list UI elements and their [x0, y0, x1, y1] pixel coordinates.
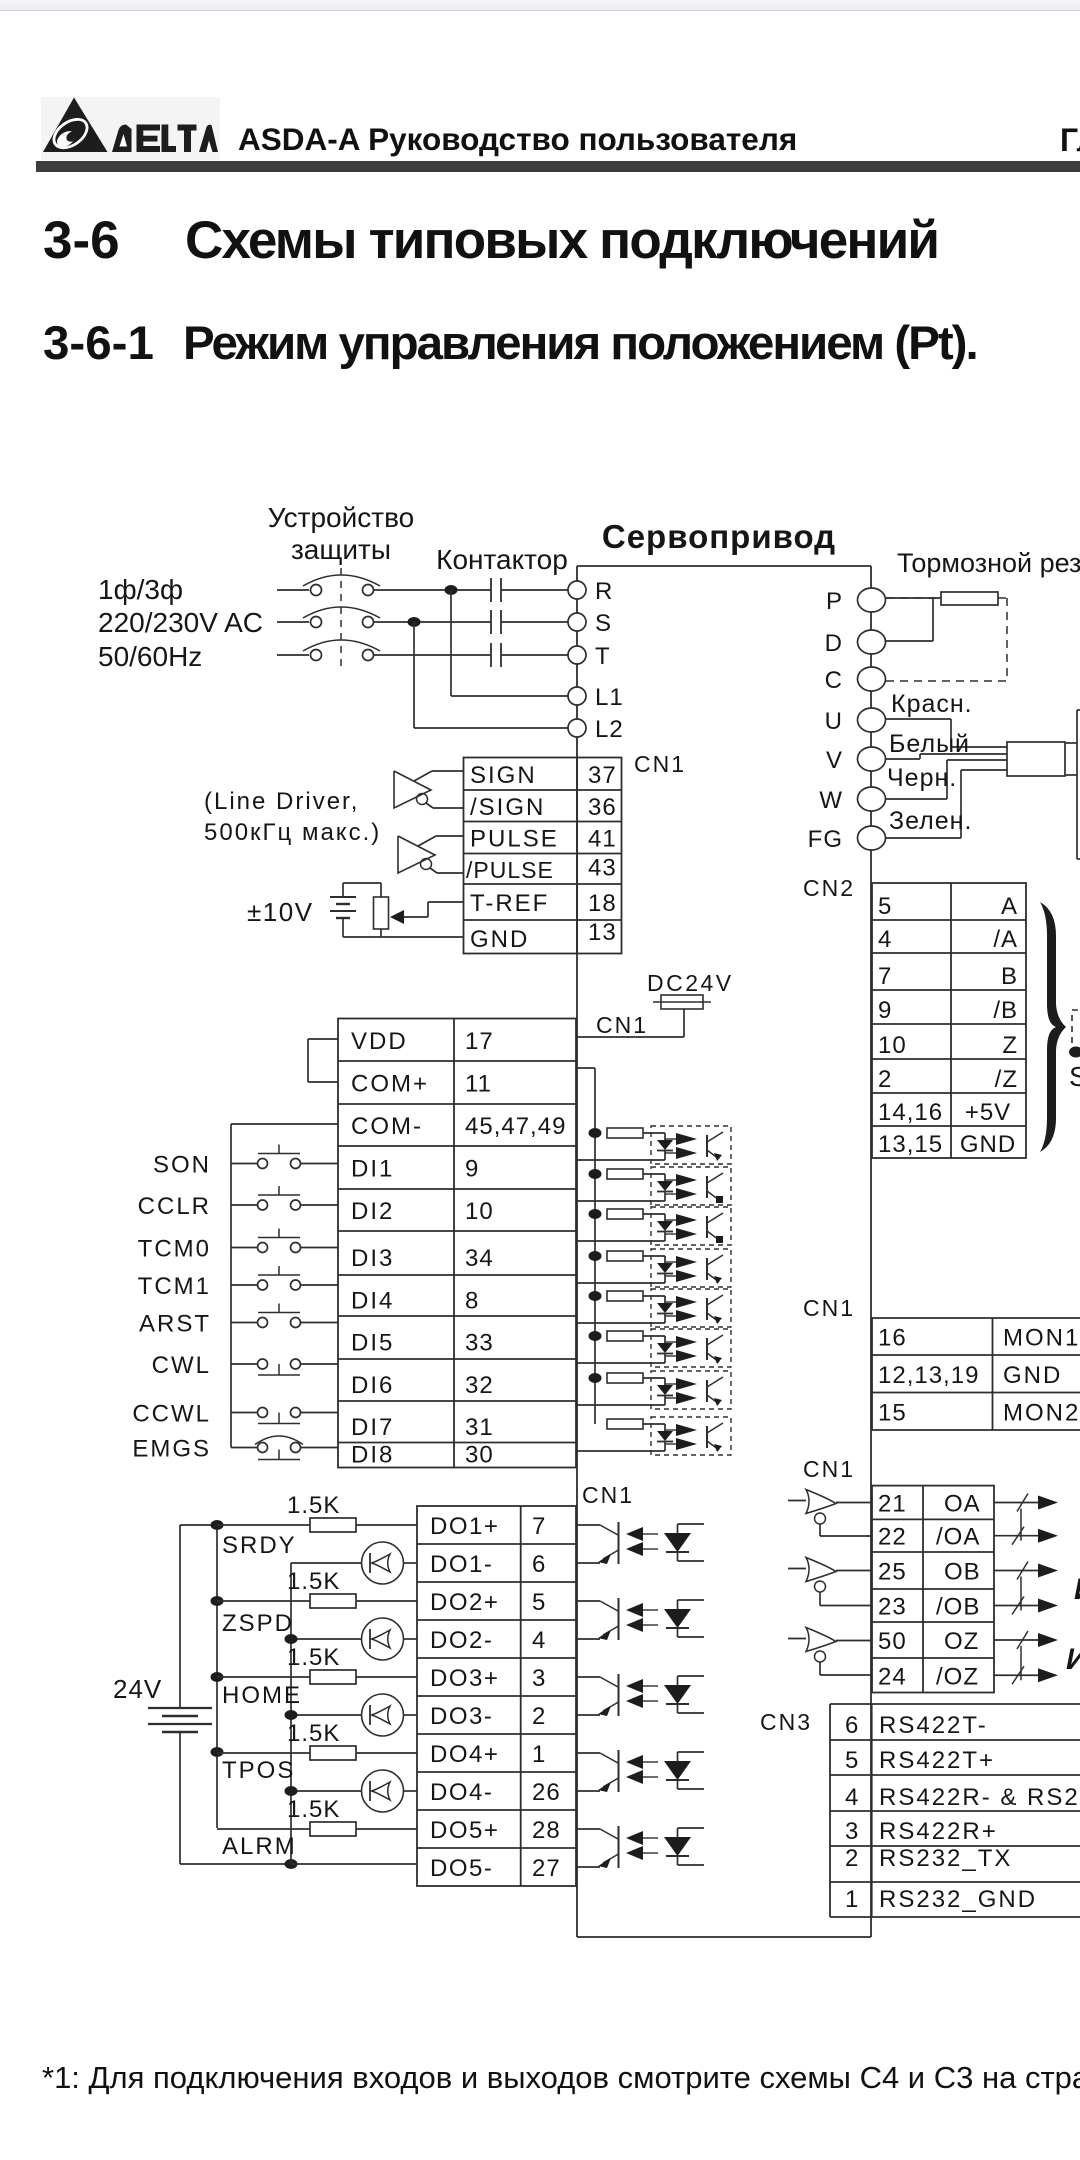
terminal W	[858, 787, 886, 811]
svg-text:37: 37	[588, 762, 617, 789]
zener diode DO3	[664, 1685, 691, 1704]
output opto DO3 emitter	[603, 1702, 619, 1711]
battery B1 (±10V reference)	[330, 896, 356, 898]
svg-text:34: 34	[465, 1245, 494, 1272]
svg-text:1.5K: 1.5K	[287, 1644, 340, 1671]
junction node DI4 bus	[589, 1251, 602, 1261]
svg-text:16: 16	[878, 1325, 907, 1352]
svg-text:5: 5	[532, 1589, 546, 1616]
wire: P to brake resistor	[886, 597, 941, 599]
wire: DI5 row to LED cathode	[577, 1322, 665, 1324]
svg-text:ZSPD: ZSPD	[222, 1610, 294, 1637]
wire: breaker pole T to contactor	[374, 654, 492, 656]
switch CWL actuator bar	[258, 1374, 300, 1376]
optocoupler dashed box DI7	[651, 1371, 731, 1409]
wire: contactor pole T to terminal T	[501, 654, 568, 656]
CN3 row line above 4	[830, 1774, 1080, 1776]
svg-text:15: 15	[878, 1399, 907, 1426]
resistor R-DI8	[607, 1419, 643, 1429]
logo wordmark DELTA	[112, 125, 132, 153]
resistor R-DI5	[607, 1291, 643, 1301]
optocoupler LED DI3	[657, 1221, 673, 1231]
svg-text:DI6: DI6	[351, 1372, 394, 1399]
resistor 1.5K R4	[310, 1746, 356, 1760]
circuit breaker pole S arc	[303, 607, 380, 618]
wire: bus to resistor 3	[217, 1676, 310, 1678]
switch CCLR wires	[231, 1204, 258, 1206]
wire: wiper to T-REF pin 18	[404, 916, 428, 918]
svg-text:31: 31	[465, 1414, 494, 1441]
header title	[238, 121, 797, 158]
svg-text:4: 4	[845, 1784, 859, 1811]
svg-text:6: 6	[845, 1712, 859, 1739]
svg-text:CCLR: CCLR	[138, 1193, 211, 1220]
svg-text:DO1-: DO1-	[430, 1551, 493, 1578]
contactor MC pole R contacts	[490, 578, 492, 602]
zener diode DO4	[664, 1761, 691, 1780]
svg-text:DI2: DI2	[351, 1198, 394, 1225]
phototransistor DI5	[706, 1298, 708, 1320]
opto light arrows DI3	[665, 1219, 676, 1221]
svg-text:3: 3	[845, 1818, 859, 1845]
svg-text:36: 36	[588, 794, 617, 821]
svg-text:1: 1	[845, 1886, 859, 1913]
output opto DO2 base bar	[618, 1598, 620, 1640]
svg-text:+5V: +5V	[965, 1099, 1011, 1126]
svg-text:2: 2	[878, 1066, 892, 1093]
CN3 row line above 1	[830, 1881, 1080, 1883]
wire: resistor to LED DI3	[643, 1213, 665, 1215]
svg-text:1.5K: 1.5K	[287, 1492, 340, 1519]
brake resistor RB	[941, 592, 998, 605]
svg-text:/Z: /Z	[995, 1066, 1018, 1093]
line driver U5 (OZ)	[788, 1638, 806, 1640]
wire: bus to resistor 1	[217, 1524, 310, 1526]
svg-text:26: 26	[532, 1779, 561, 1806]
wire: DO3- to diode	[404, 1714, 418, 1716]
junction node DI1 bus	[589, 1128, 602, 1138]
footnote	[42, 2060, 1080, 2096]
section heading 3-6	[43, 210, 120, 271]
wire: DI8 row to LED cathode	[577, 1450, 665, 1452]
wire: DI1 row to LED cathode	[577, 1159, 665, 1161]
opto light arrows DI4	[665, 1261, 676, 1263]
opto light arrows DI2	[665, 1179, 676, 1181]
encoder output row line above 22	[872, 1518, 994, 1520]
CN3 row line above 2	[830, 1845, 1080, 1847]
svg-text:DO2-: DO2-	[430, 1627, 493, 1654]
wire: motor W phase (black)	[886, 798, 947, 800]
wire: /OA output	[994, 1535, 1040, 1537]
svg-text:DI4: DI4	[351, 1288, 394, 1315]
output opto DO2 emitter	[603, 1626, 619, 1635]
svg-text:OB: OB	[944, 1559, 981, 1586]
zener diode DO2 leads	[677, 1600, 679, 1609]
contactor MC pole T contacts	[490, 643, 492, 667]
svg-text:Изм: Изм	[1066, 1643, 1080, 1676]
svg-text:A: A	[1001, 893, 1018, 920]
svg-text:L2: L2	[595, 716, 624, 743]
phototransistor DI3	[706, 1216, 708, 1238]
switch TCM1 actuator bar	[258, 1274, 300, 1276]
CN2 row line above 2	[872, 1058, 1026, 1060]
zener diode DO5 leads	[677, 1828, 679, 1837]
wire: DI6 row to LED cathode	[577, 1362, 665, 1364]
resistor R-DI7	[607, 1373, 643, 1383]
opto light arrows DI1	[665, 1138, 676, 1140]
DO table frame	[417, 1506, 576, 1886]
svg-text:2: 2	[532, 1703, 546, 1730]
wire: battery minus to DO5- return	[179, 1732, 181, 1864]
svg-text:50: 50	[878, 1628, 907, 1655]
svg-text:Z: Z	[1002, 1032, 1018, 1059]
CN1 pulse table row line above /PULSE	[464, 853, 622, 855]
wire: S phase junction down to L2	[413, 622, 415, 728]
svg-text:OA: OA	[944, 1491, 981, 1518]
arrow OZ	[1038, 1633, 1058, 1647]
phototransistor DI8	[706, 1426, 708, 1448]
svg-text:220/230V AC: 220/230V AC	[98, 607, 263, 638]
phototransistor DI7	[706, 1380, 708, 1402]
encoder output row line above 24	[872, 1657, 994, 1659]
switch CCWL contacts	[258, 1408, 268, 1418]
svg-text:25: 25	[878, 1559, 907, 1586]
CN1 pulse table row line above PULSE	[464, 821, 622, 823]
junction node on S phase	[408, 617, 421, 627]
optocoupler LED DI1	[657, 1140, 673, 1150]
optocoupler dashed box DI4	[651, 1249, 731, 1287]
svg-text:(Line Driver,: (Line Driver,	[204, 788, 359, 815]
wire: DC24V to VDD row	[683, 1009, 685, 1037]
optocoupler LED DI6	[657, 1343, 673, 1353]
svg-text:CN1: CN1	[803, 1295, 855, 1321]
breaker mechanical link (dashed)	[340, 568, 342, 668]
svg-text:SON: SON	[153, 1152, 211, 1179]
svg-text:DO4-: DO4-	[430, 1779, 493, 1806]
svg-text:/OB: /OB	[936, 1594, 980, 1621]
svg-text:DO5+: DO5+	[430, 1817, 499, 1844]
svg-text:DI1: DI1	[351, 1156, 394, 1183]
optocoupler dashed box DI3	[651, 1207, 731, 1245]
svg-text:CN2: CN2	[803, 875, 855, 901]
svg-text:10: 10	[465, 1198, 494, 1225]
CN2 row line above 13,15	[872, 1125, 1026, 1127]
svg-text:T-REF: T-REF	[470, 890, 549, 917]
junction node SRDY	[211, 1520, 224, 1530]
DO table row line above DO4+	[417, 1733, 576, 1735]
switch EMGS wires	[231, 1447, 258, 1449]
svg-text:18: 18	[588, 890, 617, 917]
optocoupler LED DI5	[657, 1303, 673, 1313]
output opto DO4 collector wire	[577, 1752, 600, 1754]
switch CCLR contacts	[258, 1200, 268, 1210]
resistor R-DI6	[607, 1331, 643, 1341]
svg-text:1.5K: 1.5K	[287, 1796, 340, 1823]
optocoupler dashed box DI5	[651, 1289, 731, 1327]
wire: motor FG ground (green)	[886, 837, 961, 839]
wire: DO2- to diode	[404, 1638, 418, 1640]
indicator diode D4 symbol	[369, 1781, 371, 1801]
output opto DO4 emitter	[603, 1778, 619, 1787]
terminal FG	[858, 826, 886, 850]
svg-text:U: U	[825, 708, 843, 735]
svg-text:DO5-: DO5-	[430, 1855, 493, 1882]
svg-text:DO3-: DO3-	[430, 1703, 493, 1730]
DC24V supply symbol	[661, 995, 703, 1009]
junction node DO4- bus	[285, 1786, 298, 1796]
wires: connector to motor	[1065, 742, 1077, 744]
svg-text:41: 41	[588, 826, 617, 853]
optocoupler dashed box DI6	[651, 1329, 731, 1367]
svg-text:1.5K: 1.5K	[287, 1568, 340, 1595]
svg-text:T: T	[595, 643, 611, 670]
line driver U2 (PULSE)	[398, 836, 435, 873]
phototransistor DI4	[706, 1258, 708, 1280]
wire: resistor 5 to DO5+ pin	[356, 1828, 417, 1830]
phototransistor DI1	[706, 1135, 708, 1157]
svg-text:COM-: COM-	[351, 1113, 423, 1140]
switch EMGS mushroom arc	[255, 1436, 303, 1445]
terminal D	[858, 630, 886, 654]
switch TCM0 contacts	[258, 1243, 268, 1253]
junction node DI5 bus	[589, 1291, 602, 1301]
svg-text:24: 24	[878, 1663, 907, 1690]
terminal L1	[568, 687, 586, 705]
output opto DO3 collector wire	[577, 1676, 600, 1678]
svg-text:/PULSE: /PULSE	[466, 857, 554, 883]
svg-text:MON2: MON2	[1003, 1399, 1080, 1426]
zener diode DO4 leads	[677, 1752, 679, 1761]
svg-text:RS422R- & RS232_RX *2: RS422R- & RS232_RX *2	[879, 1784, 1080, 1811]
svg-text:DI5: DI5	[351, 1330, 394, 1357]
switch CCLR actuator bar	[258, 1194, 300, 1196]
optocoupler LED DI7	[657, 1385, 673, 1395]
switch SON contacts	[258, 1159, 268, 1169]
optocoupler dashed box DI8	[651, 1417, 731, 1455]
svg-text:C: C	[825, 667, 843, 694]
svg-text:13,15: 13,15	[878, 1131, 943, 1158]
junction node on R phase	[445, 585, 458, 595]
terminal P	[858, 588, 886, 612]
DO table row line above DO4-	[417, 1771, 576, 1773]
twisted pair mark OZ	[1017, 1631, 1028, 1649]
output opto DO1 light arrows	[643, 1533, 658, 1535]
svg-text:Зелен.: Зелен.	[889, 807, 972, 835]
svg-text:9: 9	[465, 1156, 479, 1183]
wire: DO4- to diode	[404, 1790, 418, 1792]
circuit breaker QF pole R contacts	[311, 585, 322, 596]
svg-text:OZ: OZ	[944, 1628, 979, 1655]
wire: DI4 row to LED cathode	[577, 1282, 665, 1284]
DO table row line above DO3+	[417, 1657, 576, 1659]
svg-text:DO3+: DO3+	[430, 1665, 499, 1692]
output opto DO1 emitter	[603, 1550, 619, 1559]
optocoupler LED DI4	[657, 1263, 673, 1273]
logo triangle	[43, 98, 108, 153]
arrow /OB	[1038, 1599, 1058, 1613]
svg-text:PULSE: PULSE	[470, 826, 559, 853]
jumper P to D	[932, 598, 934, 641]
line driver U1 (SIGN)	[394, 771, 431, 808]
switch CCWL wires	[231, 1412, 258, 1414]
wire: resistor 3 to DO3+ pin	[356, 1676, 417, 1678]
svg-text:7: 7	[532, 1513, 546, 1540]
opto light arrows DI7	[665, 1383, 676, 1385]
indicator diode D1 circle	[362, 1542, 404, 1584]
twisted pair mark OB	[1017, 1562, 1028, 1580]
svg-text:14,16: 14,16	[878, 1099, 943, 1126]
zener diode DO1 leads	[677, 1524, 679, 1533]
output opto DO2 light arrows	[643, 1609, 658, 1611]
header rule	[36, 161, 1080, 172]
svg-text:CN1: CN1	[803, 1456, 855, 1482]
wire: R phase junction down to L1	[450, 590, 452, 696]
svg-text:VDD: VDD	[351, 1028, 408, 1055]
junction node DI7 bus	[589, 1373, 602, 1383]
motor power connector	[1007, 742, 1065, 776]
svg-text:B: B	[1001, 963, 1018, 990]
wire: battery plus up to SRDY bus	[179, 1525, 181, 1708]
svg-text:27: 27	[532, 1855, 561, 1882]
svg-text:30: 30	[465, 1442, 494, 1469]
CN1 pulse table row line above /SIGN	[464, 789, 622, 791]
MON row line above 15	[872, 1392, 1080, 1394]
indicator diode D3 symbol	[369, 1705, 371, 1725]
switch EMGS contacts	[258, 1443, 268, 1453]
wire: resistor to LED DI8	[643, 1423, 665, 1425]
arrow /OZ	[1038, 1668, 1058, 1682]
svg-text:/B: /B	[993, 997, 1018, 1024]
resistor R-DI1	[607, 1128, 643, 1138]
section heading 3-6-1	[43, 316, 154, 371]
optocoupler LED DI8	[657, 1431, 673, 1441]
terminal S	[568, 613, 586, 631]
wire: DO1- to diode	[404, 1562, 418, 1564]
svg-text:32: 32	[465, 1372, 494, 1399]
svg-text:DI7: DI7	[351, 1414, 394, 1441]
wire: OB output	[994, 1570, 1040, 1572]
DO plus bus	[216, 1525, 218, 1828]
encoder cable node	[1069, 1047, 1080, 1058]
svg-text:SIGN: SIGN	[470, 762, 537, 789]
wire: battery bottom / pot bottom to GND pin 13	[342, 918, 344, 937]
circuit breaker pole R arc	[303, 575, 380, 586]
CN1 pulse table frame	[464, 758, 622, 954]
wire: resistor to LED DI1	[643, 1132, 665, 1134]
svg-text:8: 8	[465, 1288, 479, 1315]
svg-text:33: 33	[465, 1330, 494, 1357]
encoder cable dashed corner	[1072, 1010, 1080, 1043]
svg-text:TCM1: TCM1	[138, 1273, 211, 1300]
resistor 1.5K R3	[310, 1670, 356, 1684]
DO minus bus	[290, 1563, 292, 1864]
svg-text:45,47,49: 45,47,49	[465, 1113, 566, 1140]
wire: source phase S to breaker	[277, 621, 309, 623]
output opto DO5 light arrows	[643, 1837, 658, 1839]
svg-text:защиты: защиты	[291, 534, 391, 565]
wire: COM- to switch common bus	[231, 1123, 338, 1125]
svg-text:1: 1	[532, 1741, 546, 1768]
wire: resistor 2 to DO2+ pin	[356, 1600, 417, 1602]
terminal C	[858, 667, 886, 691]
svg-text:HOME: HOME	[222, 1682, 302, 1709]
wire: /OZ output	[994, 1674, 1040, 1676]
wire: contactor pole R to terminal R	[501, 589, 568, 591]
svg-text:22: 22	[878, 1524, 907, 1551]
opto light arrows DI5	[665, 1301, 676, 1303]
encoder output row line above 23	[872, 1588, 994, 1590]
svg-text:/OZ: /OZ	[936, 1663, 979, 1690]
junction node DI6 bus	[589, 1331, 602, 1341]
svg-text:1.5K: 1.5K	[287, 1720, 340, 1747]
phototransistor DI2	[706, 1176, 708, 1198]
svg-text:23: 23	[878, 1594, 907, 1621]
svg-text:DO4+: DO4+	[430, 1741, 499, 1768]
junction node TPOS	[211, 1747, 224, 1757]
svg-text:28: 28	[532, 1817, 561, 1844]
switch TCM1 wires	[231, 1284, 258, 1286]
svg-text:DO2+: DO2+	[430, 1589, 499, 1616]
wire: DI7 row to LED cathode	[577, 1404, 665, 1406]
svg-text:TCM0: TCM0	[138, 1236, 211, 1263]
svg-text:6: 6	[532, 1551, 546, 1578]
svg-text:/SIGN: /SIGN	[470, 794, 545, 821]
DI table row line above COM+	[338, 1060, 576, 1062]
svg-text:5: 5	[845, 1747, 859, 1774]
indicator diode D4 circle	[362, 1770, 404, 1812]
svg-text:4: 4	[878, 926, 892, 953]
indicator diode D1 symbol	[369, 1553, 371, 1573]
wire: resistor to LED DI4	[643, 1255, 665, 1257]
svg-text:7: 7	[878, 963, 892, 990]
zener diode DO2	[664, 1609, 691, 1628]
optocoupler LED DI2	[657, 1181, 673, 1191]
svg-text:CCWL: CCWL	[132, 1401, 211, 1428]
DO table row line above DO2+	[417, 1581, 576, 1583]
wire: /OB output	[994, 1605, 1040, 1607]
encoder output row line above 25	[872, 1551, 994, 1553]
DI table frame	[338, 1019, 576, 1468]
CN3 row line above 3	[830, 1810, 1080, 1812]
wire: breaker pole R to contactor	[374, 589, 492, 591]
svg-text:CN1: CN1	[596, 1012, 648, 1038]
svg-text:Контактор: Контактор	[436, 544, 568, 575]
svg-text:43: 43	[588, 855, 617, 882]
phototransistor DI6	[706, 1338, 708, 1360]
svg-text:Sерво: Sерво	[1069, 1061, 1080, 1092]
DI table row line above DI1	[338, 1145, 576, 1147]
switch ARST contacts	[258, 1318, 268, 1328]
brake resistor dashed box	[886, 597, 941, 599]
wire: diode to minus bus	[291, 1638, 362, 1640]
CN3 row line above 5	[830, 1739, 1080, 1741]
svg-text:ALRM: ALRM	[222, 1833, 297, 1860]
svg-text:9: 9	[878, 997, 892, 1024]
wire: COM+ to opto bus	[577, 1067, 595, 1069]
opto light arrows DI6	[665, 1341, 676, 1343]
svg-text:ARST: ARST	[139, 1311, 211, 1338]
terminal V	[858, 747, 886, 771]
output opto DO4 base bar	[618, 1750, 620, 1792]
wire: OZ output	[994, 1639, 1040, 1641]
svg-text:GND: GND	[470, 926, 529, 953]
svg-text:CWL: CWL	[152, 1352, 211, 1379]
output opto DO5 base bar	[618, 1826, 620, 1868]
svg-text:EMGS: EMGS	[132, 1436, 211, 1463]
svg-text:RS232_TX: RS232_TX	[879, 1845, 1012, 1872]
potentiometer RV1	[374, 897, 389, 929]
svg-text:1ф/3ф: 1ф/3ф	[98, 574, 183, 605]
